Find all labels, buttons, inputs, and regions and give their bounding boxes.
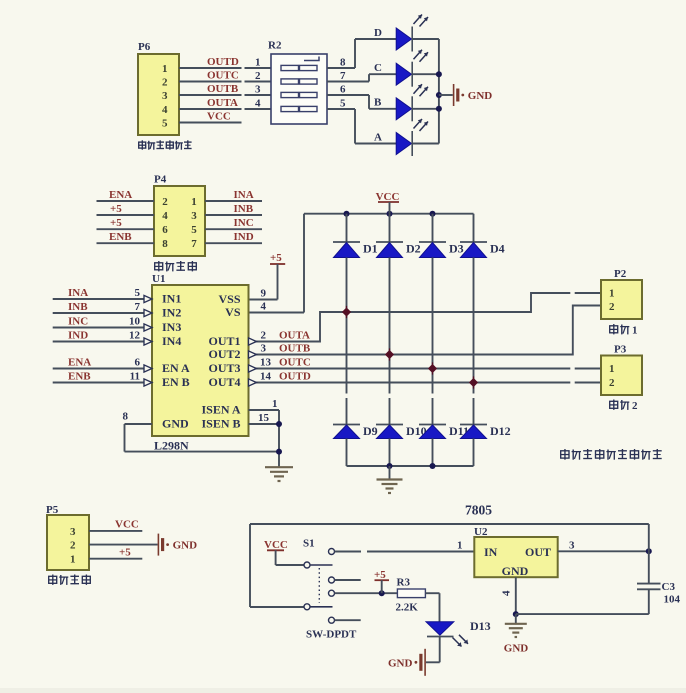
svg-text:12: 12: [129, 330, 141, 342]
svg-text:IN3: IN3: [162, 320, 181, 334]
svg-text:GND: GND: [468, 90, 493, 102]
svg-text:ISEN B: ISEN B: [201, 417, 240, 431]
svg-text:+5: +5: [270, 252, 282, 264]
svg-text:4: 4: [255, 98, 261, 110]
svg-text:OUTA: OUTA: [207, 97, 238, 109]
svg-text:104: 104: [664, 594, 681, 606]
svg-text:7805: 7805: [465, 503, 492, 518]
svg-text:6: 6: [135, 357, 141, 369]
svg-text:1: 1: [632, 325, 638, 337]
svg-text:13: 13: [260, 357, 272, 369]
svg-text:GND: GND: [173, 540, 198, 552]
svg-text:10: 10: [129, 316, 141, 328]
svg-text:U2: U2: [474, 526, 488, 538]
svg-text:3: 3: [70, 526, 76, 538]
svg-text:VCC: VCC: [207, 111, 231, 123]
svg-text:8: 8: [162, 238, 168, 250]
svg-text:OUT4: OUT4: [208, 375, 240, 389]
svg-text:D2: D2: [406, 242, 421, 256]
svg-text:GND: GND: [502, 564, 529, 578]
svg-text:2: 2: [162, 196, 168, 208]
svg-text:ENB: ENB: [68, 370, 91, 382]
svg-text:EN B: EN B: [162, 375, 190, 389]
svg-text:+5: +5: [374, 569, 386, 581]
svg-text:OUTB: OUTB: [279, 343, 311, 355]
svg-text:INB: INB: [68, 301, 88, 313]
svg-text:2: 2: [255, 70, 261, 82]
svg-text:P5: P5: [46, 504, 59, 516]
svg-text:1: 1: [70, 554, 76, 566]
svg-text:7: 7: [191, 238, 197, 250]
svg-text:4: 4: [162, 104, 168, 116]
svg-text:IN4: IN4: [162, 334, 181, 348]
svg-text:5: 5: [162, 118, 168, 130]
svg-text:2: 2: [70, 540, 76, 552]
svg-text:IN1: IN1: [162, 292, 181, 306]
svg-text:1: 1: [609, 363, 615, 375]
svg-text:4: 4: [162, 210, 168, 222]
svg-text:OUTB: OUTB: [207, 83, 239, 95]
svg-text:7: 7: [135, 301, 141, 313]
svg-text:1: 1: [272, 398, 278, 410]
svg-text:2.2K: 2.2K: [396, 602, 419, 614]
svg-text:2: 2: [609, 301, 615, 313]
svg-text:4: 4: [501, 590, 513, 596]
svg-text:1: 1: [609, 288, 615, 300]
svg-text:U1: U1: [152, 273, 165, 285]
svg-text:INC: INC: [68, 315, 88, 327]
svg-text:2: 2: [632, 400, 638, 412]
svg-text:OUT3: OUT3: [208, 361, 240, 375]
svg-text:5: 5: [135, 287, 141, 299]
svg-text:VCC: VCC: [115, 519, 139, 531]
svg-text:C3: C3: [662, 581, 676, 593]
svg-text:L298N: L298N: [154, 439, 189, 453]
svg-text:GND: GND: [388, 657, 413, 669]
svg-text:2: 2: [609, 377, 615, 389]
svg-text:VCC: VCC: [264, 539, 288, 551]
svg-text:INC: INC: [234, 217, 254, 229]
svg-text:P6: P6: [138, 41, 151, 53]
svg-text:ENA: ENA: [109, 189, 132, 201]
svg-text:3: 3: [162, 90, 168, 102]
svg-text:ENB: ENB: [109, 231, 132, 243]
svg-text:C: C: [374, 62, 382, 74]
svg-text:5: 5: [340, 98, 346, 110]
svg-text:S1: S1: [303, 538, 315, 550]
svg-text:D1: D1: [363, 242, 378, 256]
svg-text:INA: INA: [68, 287, 88, 299]
svg-text:VSS: VSS: [218, 292, 240, 306]
svg-text:+5: +5: [110, 203, 122, 215]
svg-text:OUTC: OUTC: [279, 357, 311, 369]
svg-text:R3: R3: [397, 577, 411, 589]
svg-text:R2: R2: [268, 40, 282, 52]
svg-text:OUTA: OUTA: [279, 330, 310, 342]
svg-text:8: 8: [123, 411, 129, 423]
svg-text:5: 5: [191, 224, 197, 236]
svg-text:1: 1: [255, 57, 261, 69]
svg-text:P4: P4: [154, 174, 167, 186]
svg-text:2: 2: [261, 330, 267, 342]
svg-text:3: 3: [255, 84, 261, 96]
svg-text:IND: IND: [68, 329, 88, 341]
svg-text:D: D: [374, 27, 382, 39]
svg-text:SW-DPDT: SW-DPDT: [306, 629, 357, 641]
svg-text:15: 15: [258, 412, 270, 424]
svg-text:GND: GND: [504, 643, 529, 655]
svg-text:1: 1: [162, 63, 168, 75]
svg-text:8: 8: [340, 57, 346, 69]
svg-text:D3: D3: [449, 242, 464, 256]
svg-text:B: B: [374, 97, 382, 109]
svg-text:P2: P2: [614, 268, 627, 280]
svg-text:OUT1: OUT1: [208, 334, 240, 348]
svg-text:ISEN A: ISEN A: [201, 403, 240, 417]
svg-text:6: 6: [162, 224, 168, 236]
svg-text:+5: +5: [110, 217, 122, 229]
svg-text:11: 11: [130, 371, 140, 383]
svg-text:OUTC: OUTC: [207, 70, 239, 82]
svg-text:14: 14: [260, 371, 272, 383]
svg-text:ENA: ENA: [68, 356, 91, 368]
svg-text:2: 2: [162, 77, 168, 89]
svg-text:D13: D13: [470, 619, 491, 633]
svg-text:P3: P3: [614, 344, 627, 356]
svg-text:OUT2: OUT2: [208, 347, 240, 361]
svg-text:A: A: [374, 131, 382, 143]
svg-text:IND: IND: [234, 231, 254, 243]
svg-text:6: 6: [340, 84, 346, 96]
svg-text:7: 7: [340, 70, 346, 82]
svg-text:GND: GND: [162, 417, 189, 431]
svg-text:9: 9: [261, 288, 267, 300]
svg-text:INB: INB: [234, 203, 254, 215]
svg-text:4: 4: [261, 301, 267, 313]
svg-text:OUTD: OUTD: [279, 371, 311, 383]
svg-text:1: 1: [457, 539, 463, 551]
svg-text:OUT: OUT: [525, 545, 551, 559]
svg-text:D4: D4: [490, 242, 505, 256]
svg-text:+5: +5: [119, 547, 131, 559]
svg-text:EN A: EN A: [162, 361, 190, 375]
svg-text:3: 3: [191, 210, 197, 222]
svg-text:VS: VS: [225, 305, 241, 319]
svg-text:3: 3: [261, 343, 267, 355]
svg-text:D12: D12: [490, 424, 511, 438]
svg-text:3: 3: [569, 539, 575, 551]
svg-text:1: 1: [191, 196, 197, 208]
svg-text:OUTD: OUTD: [207, 56, 239, 68]
svg-text:D9: D9: [363, 424, 378, 438]
svg-text:IN2: IN2: [162, 306, 181, 320]
svg-text:IN: IN: [484, 545, 498, 559]
svg-text:INA: INA: [234, 189, 254, 201]
